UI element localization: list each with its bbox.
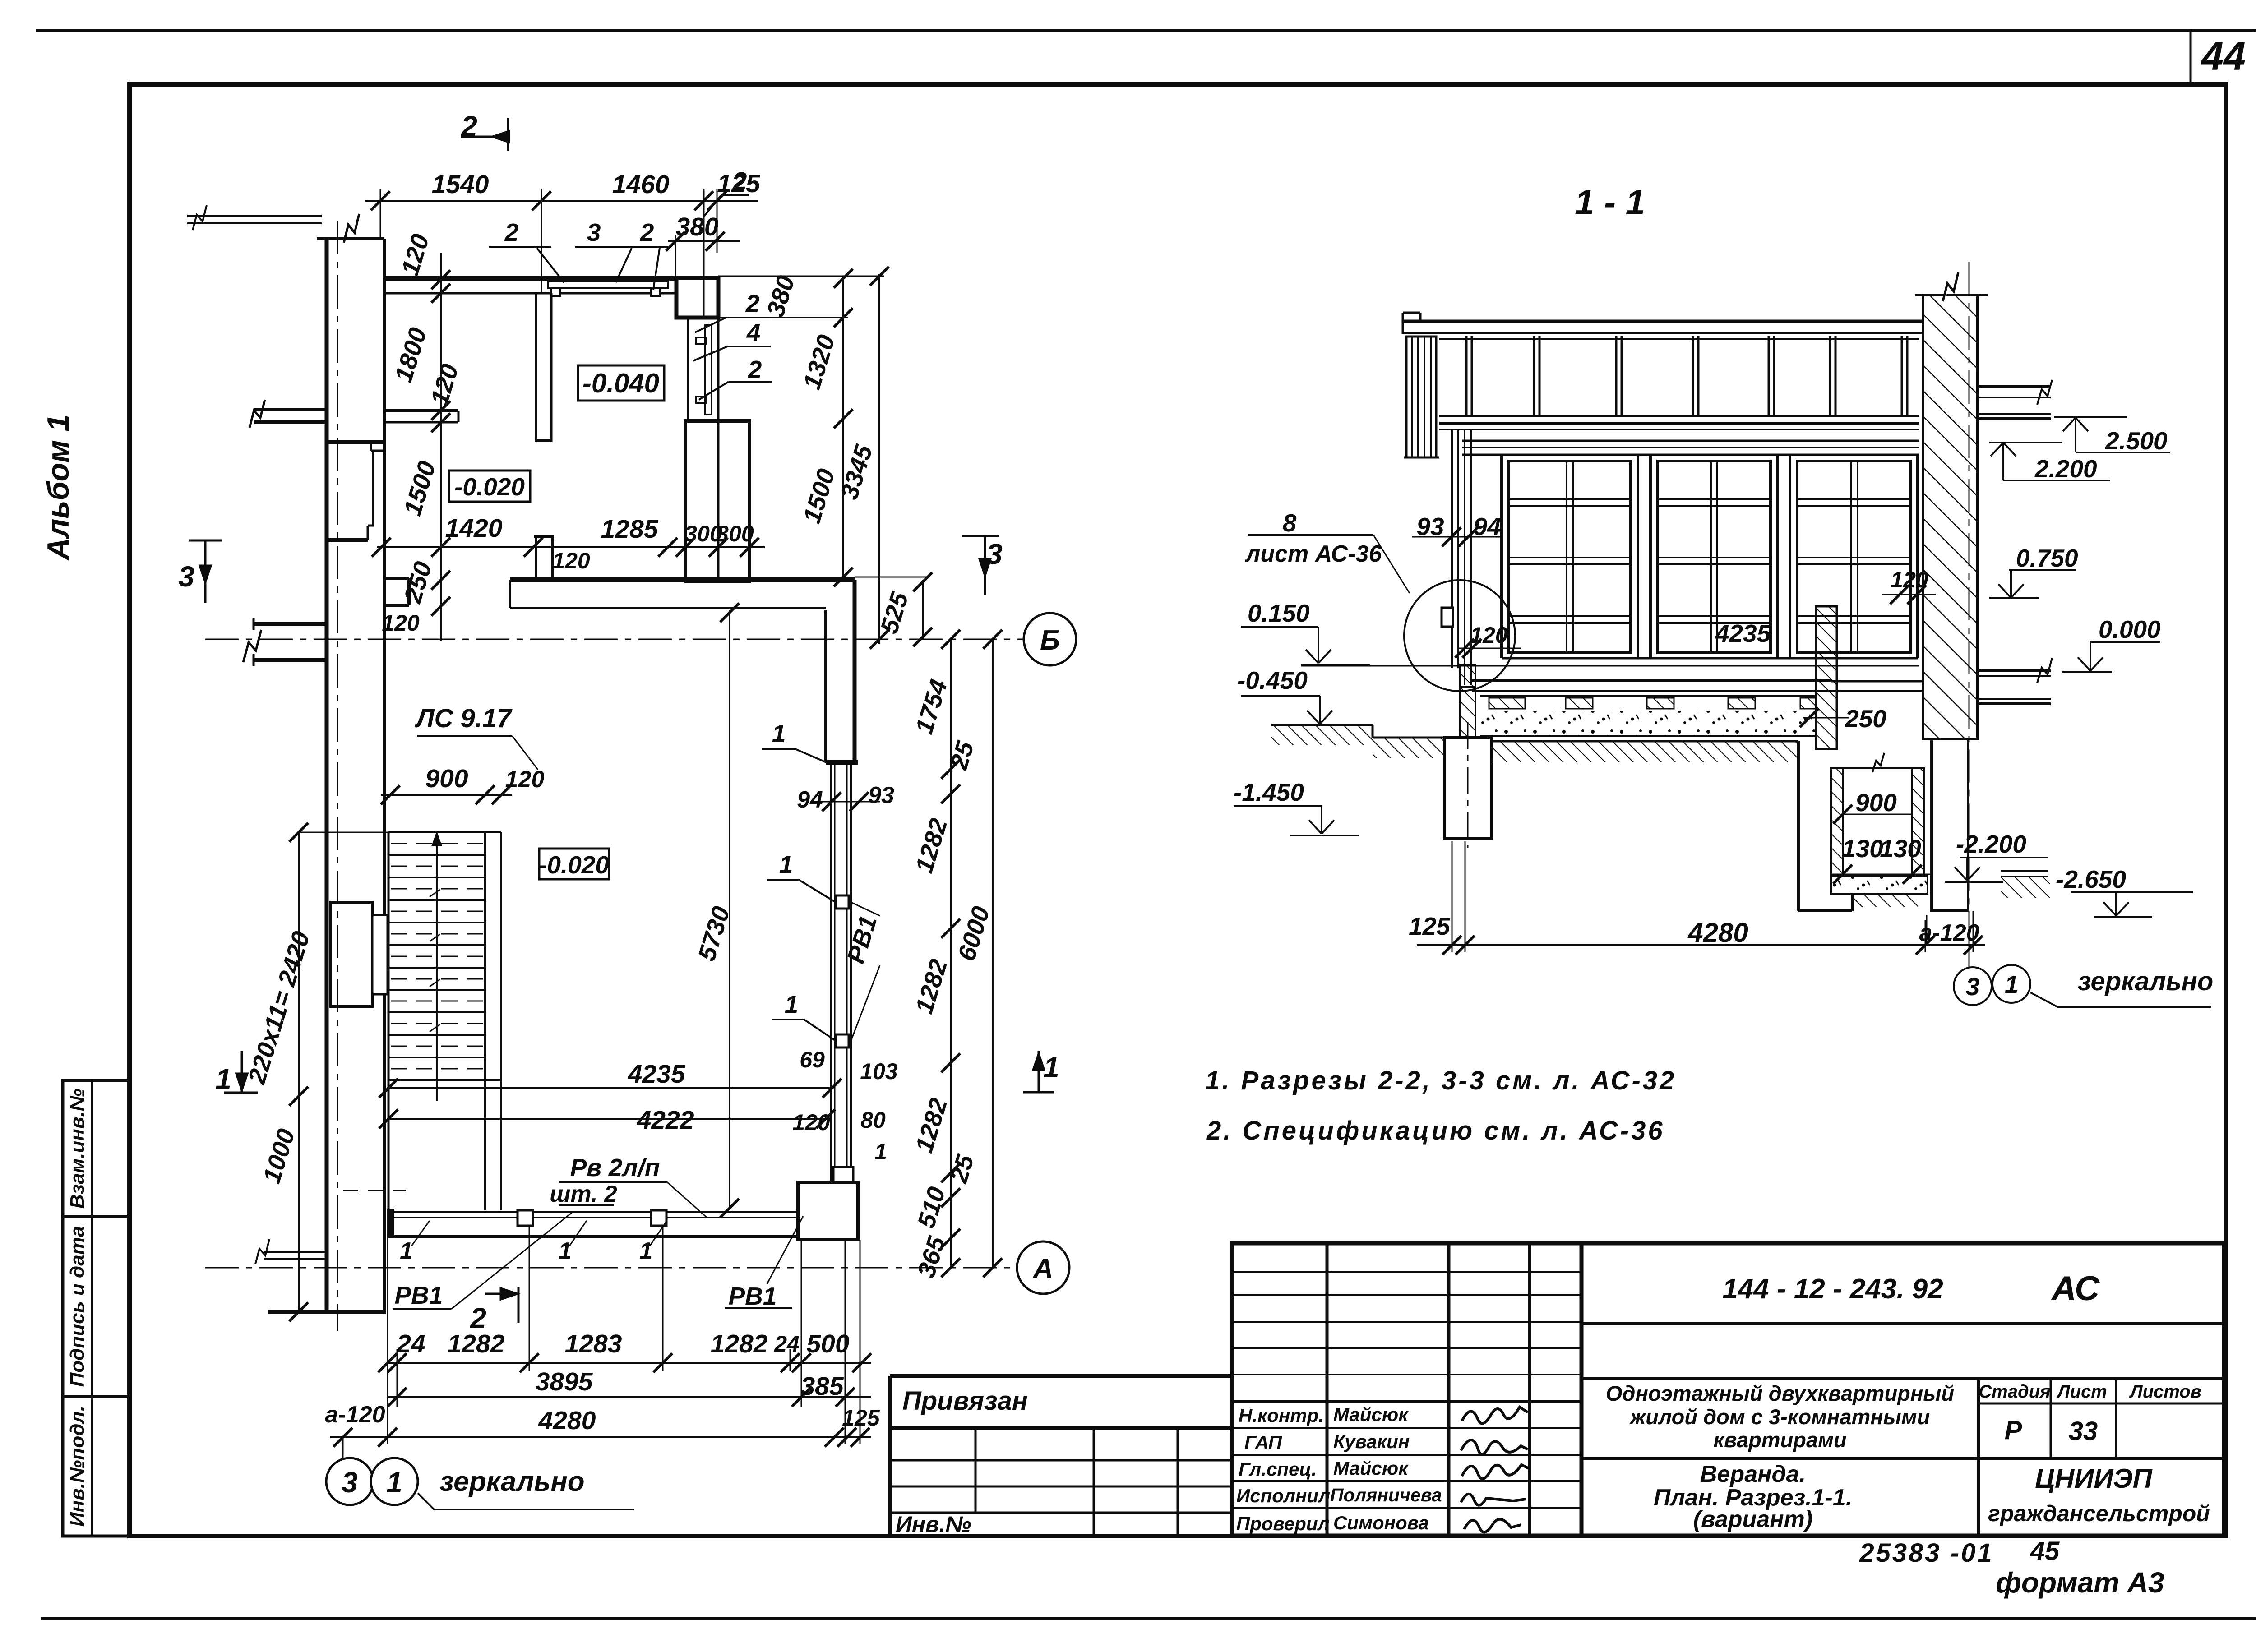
svg-text:1: 1 <box>1043 1051 1059 1084</box>
svg-text:4: 4 <box>746 318 761 346</box>
svg-text:Н.контр.: Н.контр. <box>1239 1405 1324 1426</box>
svg-text:3: 3 <box>986 538 1003 570</box>
svg-text:4222: 4222 <box>637 1106 694 1135</box>
svg-text:3: 3 <box>587 218 601 246</box>
svg-text:АС: АС <box>2051 1269 2100 1308</box>
svg-text:квартирами: квартирами <box>1713 1428 1846 1452</box>
svg-text:120: 120 <box>382 610 420 636</box>
svg-text:граждансельстрой: граждансельстрой <box>1988 1501 2210 1526</box>
svg-text:125: 125 <box>1409 912 1451 940</box>
svg-text:3895: 3895 <box>536 1367 593 1396</box>
svg-text:2: 2 <box>504 218 519 246</box>
svg-text:лист АС-36: лист АС-36 <box>1244 541 1382 567</box>
svg-text:4280: 4280 <box>538 1406 596 1435</box>
svg-text:РВ1: РВ1 <box>395 1281 443 1309</box>
svg-text:24: 24 <box>396 1329 425 1358</box>
svg-text:Веранда.: Веранда. <box>1700 1461 1806 1487</box>
svg-text:Майсюк: Майсюк <box>1333 1458 1409 1479</box>
svg-text:Р: Р <box>2005 1416 2022 1445</box>
svg-text:Б: Б <box>1040 625 1060 656</box>
svg-text:45: 45 <box>2030 1537 2060 1566</box>
svg-text:-1.450: -1.450 <box>1234 778 1304 806</box>
svg-text:Взам.инв.№: Взам.инв.№ <box>66 1089 88 1209</box>
svg-text:2: 2 <box>461 110 477 143</box>
svg-text:3: 3 <box>342 1466 358 1499</box>
svg-text:-2.650: -2.650 <box>2056 865 2126 893</box>
svg-text:формат А3: формат А3 <box>1996 1566 2164 1599</box>
svg-text:1: 1 <box>785 990 799 1018</box>
svg-text:1: 1 <box>772 720 786 748</box>
svg-text:2. Спецификацию см. л. АС-3: 2. Спецификацию см. л. АС-36 <box>1206 1116 1665 1145</box>
svg-text:94: 94 <box>797 787 823 813</box>
svg-text:1283: 1283 <box>565 1329 622 1358</box>
svg-text:1: 1 <box>559 1238 572 1264</box>
svg-text:Листов: Листов <box>2129 1382 2201 1402</box>
svg-text:380: 380 <box>675 212 718 241</box>
svg-text:120: 120 <box>552 548 590 573</box>
svg-text:зеркально: зеркально <box>2078 967 2214 996</box>
svg-text:250: 250 <box>1845 705 1886 733</box>
svg-text:Кувакин: Кувакин <box>1333 1431 1410 1452</box>
svg-text:2: 2 <box>745 290 760 318</box>
svg-text:120: 120 <box>792 1110 830 1135</box>
svg-text:1540: 1540 <box>432 170 489 199</box>
svg-text:300: 300 <box>716 521 754 546</box>
svg-text:2: 2 <box>470 1302 486 1334</box>
svg-text:2: 2 <box>640 218 654 246</box>
svg-text:А: А <box>1032 1253 1054 1284</box>
svg-text:0.150: 0.150 <box>1248 599 1310 627</box>
svg-text:жилой дом с 3-комнатными: жилой дом с 3-комнатными <box>1629 1405 1930 1429</box>
svg-text:24: 24 <box>774 1331 800 1357</box>
svg-text:1: 1 <box>215 1063 231 1095</box>
svg-text:125: 125 <box>842 1405 880 1431</box>
svg-text:Исполнил: Исполнил <box>1236 1485 1330 1506</box>
svg-text:103: 103 <box>860 1059 898 1084</box>
svg-text:-2.200: -2.200 <box>1956 830 2026 858</box>
svg-text:130: 130 <box>1880 835 1921 863</box>
svg-text:Лист: Лист <box>2056 1382 2107 1402</box>
svg-text:Инв.№: Инв.№ <box>896 1512 971 1537</box>
svg-text:1. Разрезы 2-2, 3-3 см. л.: 1. Разрезы 2-2, 3-3 см. л. АС-32 <box>1205 1066 1676 1095</box>
svg-text:500: 500 <box>806 1329 849 1358</box>
svg-text:44: 44 <box>2201 34 2246 78</box>
svg-text:ГАП: ГАП <box>1244 1432 1282 1453</box>
svg-text:1460: 1460 <box>612 170 670 199</box>
svg-text:1: 1 <box>386 1466 402 1499</box>
svg-text:Стадия: Стадия <box>1979 1382 2050 1402</box>
svg-text:1: 1 <box>779 850 793 878</box>
svg-text:1 - 1: 1 - 1 <box>1575 182 1645 222</box>
svg-text:Подпись и дата: Подпись и дата <box>66 1226 88 1387</box>
svg-text:Майсюк: Майсюк <box>1333 1404 1409 1425</box>
svg-text:Поляничева: Поляничева <box>1330 1485 1442 1505</box>
svg-text:а-120: а-120 <box>325 1402 385 1428</box>
svg-text:1: 1 <box>2005 970 2019 998</box>
svg-text:3: 3 <box>178 560 194 593</box>
svg-text:0.750: 0.750 <box>2016 544 2078 572</box>
svg-text:а-120: а-120 <box>1919 920 1979 946</box>
svg-text:шт. 2: шт. 2 <box>550 1181 617 1207</box>
svg-text:2: 2 <box>748 355 762 383</box>
svg-text:1: 1 <box>639 1238 652 1264</box>
svg-text:130: 130 <box>1842 835 1883 863</box>
svg-text:3: 3 <box>1966 973 1980 1001</box>
svg-text:2: 2 <box>733 167 747 195</box>
svg-text:1282: 1282 <box>711 1329 768 1358</box>
svg-text:120: 120 <box>505 766 545 793</box>
svg-text:8: 8 <box>1283 509 1297 537</box>
svg-text:(вариант): (вариант) <box>1693 1506 1812 1532</box>
svg-text:1420: 1420 <box>445 514 503 543</box>
svg-text:1: 1 <box>400 1238 413 1264</box>
svg-text:2.500: 2.500 <box>2105 427 2168 455</box>
svg-text:4280: 4280 <box>1687 918 1748 948</box>
svg-text:4235: 4235 <box>628 1060 686 1089</box>
svg-text:0.000: 0.000 <box>2099 615 2161 643</box>
svg-text:80: 80 <box>860 1107 886 1133</box>
svg-text:Рв 2л/п: Рв 2л/п <box>570 1154 660 1181</box>
svg-text:1285: 1285 <box>601 515 659 544</box>
svg-text:Одноэтажный двухквартирный: Одноэтажный двухквартирный <box>1606 1381 1954 1405</box>
svg-text:Гл.спец.: Гл.спец. <box>1239 1458 1317 1480</box>
svg-text:ЦНИИЭП: ЦНИИЭП <box>2035 1463 2153 1494</box>
svg-text:Инв.№подл.: Инв.№подл. <box>66 1406 88 1527</box>
svg-text:900: 900 <box>425 764 468 793</box>
svg-text:2.200: 2.200 <box>2034 455 2097 483</box>
svg-text:-0.020: -0.020 <box>454 473 525 501</box>
svg-text:-0.040: -0.040 <box>582 368 659 398</box>
svg-text:-0.450: -0.450 <box>1237 666 1308 694</box>
svg-text:25383 -01: 25383 -01 <box>1859 1538 1993 1568</box>
svg-text:Проверил: Проверил <box>1236 1513 1330 1534</box>
svg-text:Альбом 1: Альбом 1 <box>41 415 75 561</box>
svg-text:144 - 12 - 243. 92: 144 - 12 - 243. 92 <box>1722 1274 1943 1305</box>
svg-text:4235: 4235 <box>1715 619 1771 647</box>
svg-text:зеркально: зеркально <box>439 1466 584 1497</box>
svg-text:900: 900 <box>1855 789 1897 817</box>
svg-text:69: 69 <box>800 1047 825 1072</box>
svg-text:Симонова: Симонова <box>1333 1512 1429 1533</box>
svg-text:-0.020: -0.020 <box>539 851 609 879</box>
svg-text:1: 1 <box>874 1139 887 1164</box>
svg-text:РВ1: РВ1 <box>729 1282 777 1310</box>
svg-text:93: 93 <box>868 782 894 808</box>
svg-text:385: 385 <box>800 1372 844 1401</box>
svg-text:ЛС 9.17: ЛС 9.17 <box>415 704 513 733</box>
svg-text:33: 33 <box>2069 1417 2098 1446</box>
svg-text:Привязан: Привязан <box>902 1386 1028 1416</box>
